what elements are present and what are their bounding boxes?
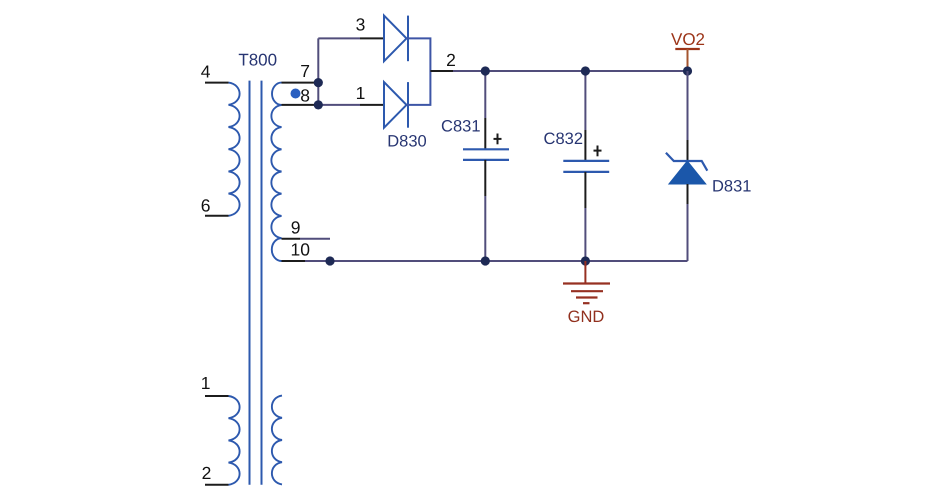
pin 8 lead: [282, 104, 319, 106]
capacitor C832: [544, 71, 610, 261]
D830 top diode triangle: [384, 16, 407, 62]
dual diode D830: [384, 16, 408, 128]
transformer T800 core: [250, 81, 262, 485]
diode pin 2 lead: [430, 70, 453, 72]
wire pins 7-8 to diode vertical: [317, 38, 319, 105]
pin 10 lead: [282, 260, 306, 262]
svg-text:2: 2: [446, 50, 456, 70]
pin 2 lead: [205, 484, 229, 486]
junction pin 10: [325, 256, 334, 265]
capacitor C831: [441, 71, 509, 261]
C831 top lead: [484, 118, 486, 149]
VO2 stub: [687, 49, 689, 71]
T800 primary winding top (pins 4-6): [229, 83, 240, 216]
svg-text:GND: GND: [568, 308, 605, 326]
VO2 terminal: [671, 30, 705, 71]
pin 1 lead: [205, 395, 229, 397]
svg-text:10: 10: [291, 240, 311, 260]
junction pin 8: [314, 100, 323, 109]
C831 bottom wire: [484, 196, 486, 261]
svg-text:1: 1: [201, 373, 211, 393]
C831 bottom lead: [484, 160, 486, 196]
bottom rail wire: [305, 260, 688, 262]
C831 top wire: [484, 71, 486, 118]
pin 9 wire stub: [300, 238, 330, 240]
D831 bottom wire: [687, 204, 689, 261]
T800 auxiliary winding bottom right: [272, 396, 282, 485]
C832 bottom lead: [584, 172, 586, 208]
pin 7 lead: [282, 82, 319, 84]
svg-text:8: 8: [300, 86, 310, 106]
C831 plus sign: [494, 138, 502, 140]
D831 cathode lead: [687, 140, 689, 161]
pin 4 lead: [205, 82, 229, 84]
ground stub: [584, 261, 586, 284]
junction C832 top: [581, 66, 590, 75]
diode pin 3 lead: [360, 37, 384, 39]
svg-text:C831: C831: [441, 118, 480, 136]
diode pin 1 lead: [360, 104, 384, 106]
D830 cathode connector: [407, 38, 431, 105]
svg-text:7: 7: [300, 61, 310, 81]
junction VO2 node: [683, 66, 692, 75]
C832 top wire: [584, 71, 586, 130]
VO2 bar: [675, 48, 700, 50]
svg-text:4: 4: [201, 61, 211, 81]
pin 9 lead: [282, 238, 301, 240]
D831 top wire: [687, 71, 689, 140]
svg-text:D831: D831: [712, 177, 751, 195]
wire to diode pin 1: [318, 104, 360, 106]
svg-text:VO2: VO2: [671, 30, 705, 49]
svg-text:1: 1: [356, 83, 366, 103]
pin 6 lead: [205, 215, 229, 217]
zener diode D831: [666, 71, 752, 261]
junction pin 7: [314, 78, 323, 87]
ground: [563, 261, 610, 326]
junction C831 bottom: [481, 256, 490, 265]
D831 triangle: [669, 161, 706, 184]
junction C831 top: [481, 66, 490, 75]
C832 plus sign: [594, 150, 602, 152]
svg-text:D830: D830: [387, 132, 426, 150]
polarity dot: [291, 89, 301, 99]
D831 anode lead: [687, 184, 689, 204]
T800 secondary winding (pins 7,8,9,10): [271, 83, 281, 261]
svg-text:3: 3: [356, 15, 366, 35]
C832 bottom wire: [584, 208, 586, 261]
svg-text:9: 9: [291, 218, 301, 238]
D830 bottom diode cathode bar: [407, 82, 409, 128]
junction C832 bottom / ground node: [581, 256, 590, 265]
D830 bottom diode triangle: [384, 82, 407, 128]
ground bars: [563, 282, 610, 284]
wire to diode pin 3: [318, 37, 360, 39]
svg-text:2: 2: [202, 463, 212, 483]
C832 top lead: [584, 130, 586, 161]
C832 plates: [563, 160, 609, 162]
svg-text:T800: T800: [238, 50, 277, 69]
C831 plates: [463, 148, 509, 150]
top rail wire: [453, 70, 688, 72]
T800 primary winding bottom (pins 1-2): [229, 396, 240, 485]
D830 top diode cathode bar: [407, 16, 409, 62]
svg-text:C832: C832: [544, 130, 583, 148]
D831 cathode bar with zener tails: [666, 153, 707, 171]
svg-text:6: 6: [201, 195, 211, 215]
